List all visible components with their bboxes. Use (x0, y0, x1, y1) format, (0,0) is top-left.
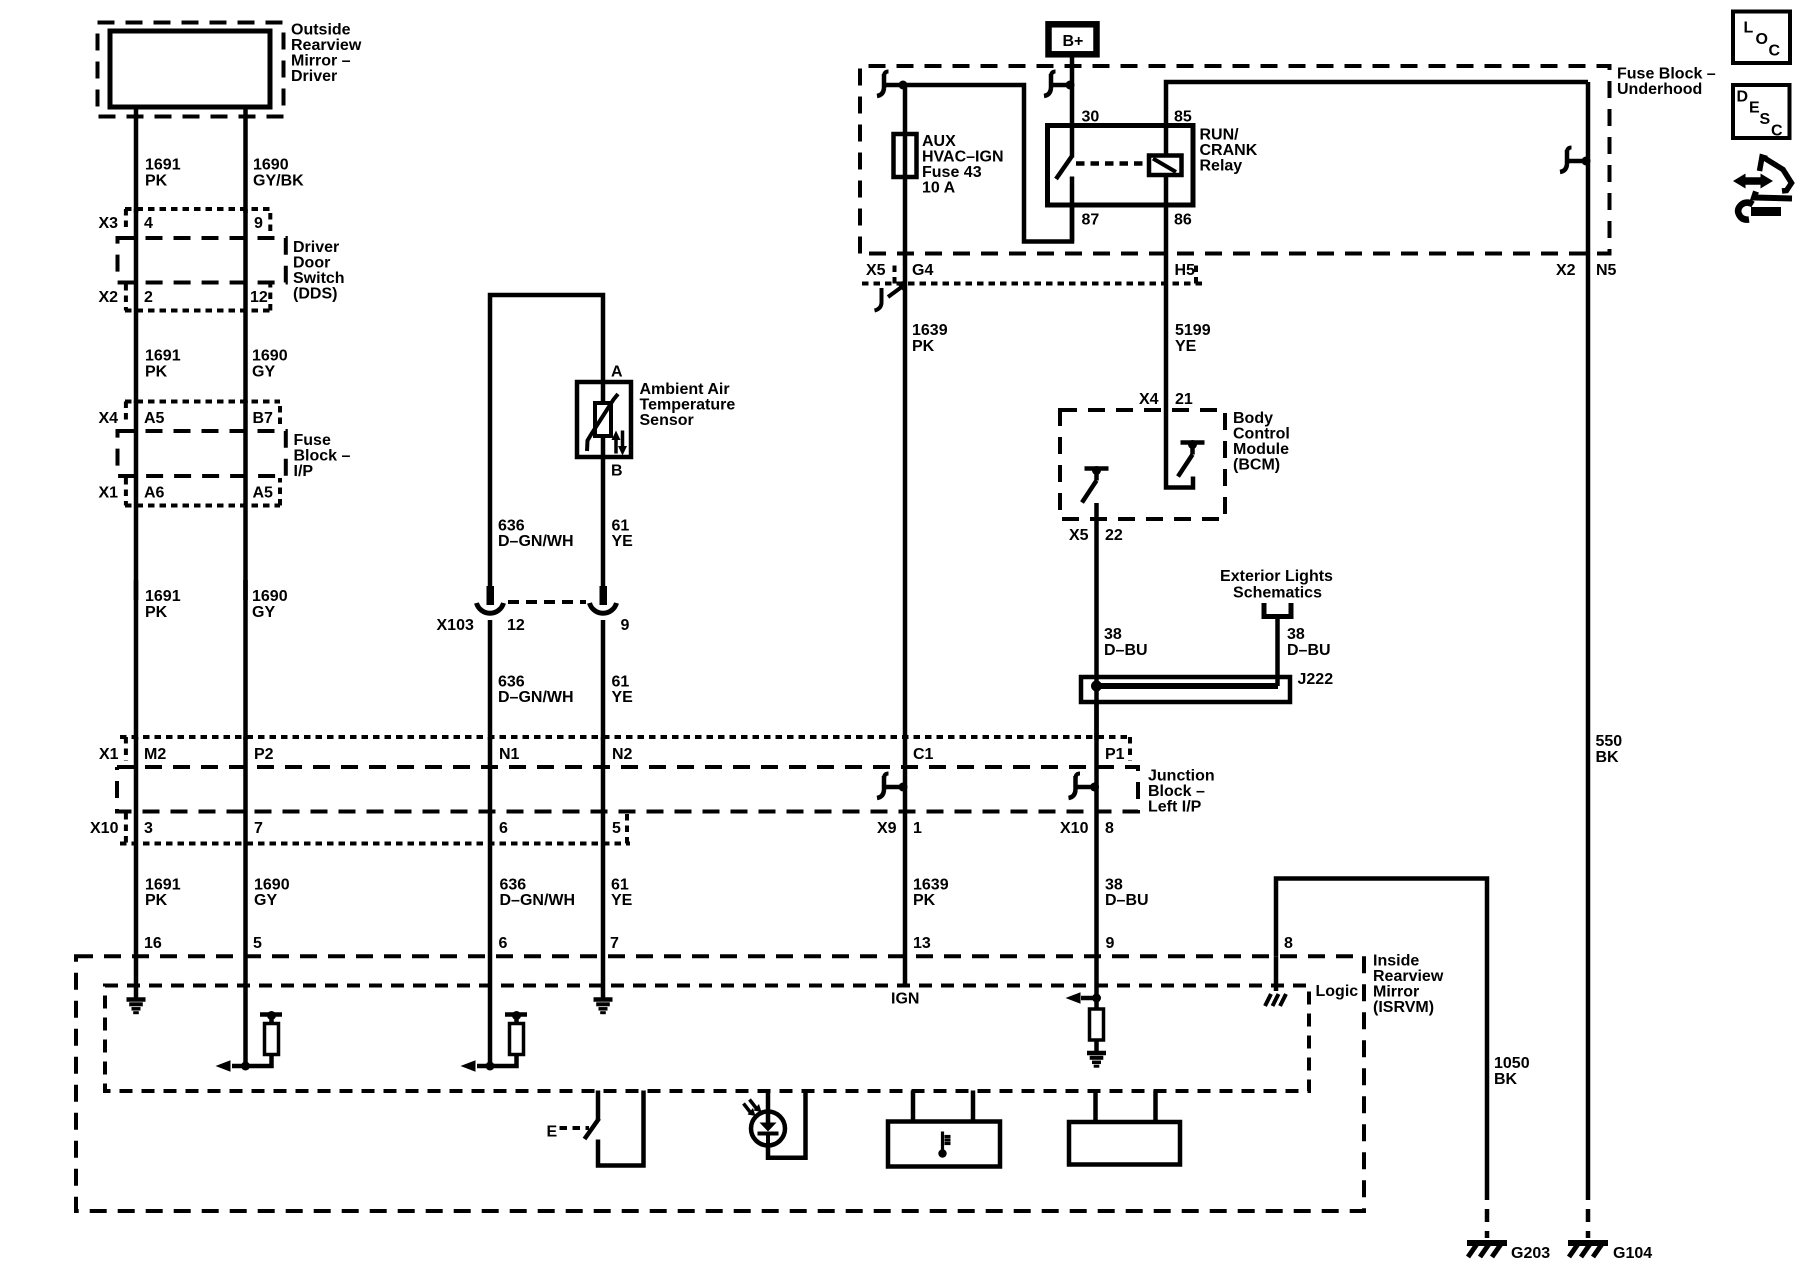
svg-text:A6: A6 (144, 485, 165, 502)
svg-text:X1: X1 (99, 485, 119, 502)
svg-text:1691: 1691 (145, 588, 181, 605)
wire 1690 GY/BK from mirror (243, 107, 248, 213)
outside rearview mirror - driver (dashed enclosure) (98, 23, 284, 117)
svg-text:Left I/P: Left I/P (1148, 799, 1202, 816)
svg-text:Door: Door (293, 255, 330, 272)
svg-text:Exterior Lights: Exterior Lights (1220, 568, 1333, 585)
wire 1691 down to junction block (134, 580, 139, 740)
wire 1690 down to junction block (243, 580, 248, 740)
wire relay 85 to top rail (1166, 82, 1588, 156)
svg-text:PK: PK (145, 892, 168, 909)
svg-text:A: A (611, 364, 623, 381)
fuse block - I/P dashed box (118, 431, 286, 476)
svg-text:PK: PK (912, 338, 935, 355)
driver door switch (DDS) dashed box (118, 238, 286, 283)
compass temperature display module (888, 1122, 1000, 1167)
wire from B+ to relay pin 30 (1070, 54, 1075, 127)
svg-text:636: 636 (500, 877, 527, 894)
hook on right wire (1560, 148, 1591, 173)
svg-text:Outside: Outside (291, 22, 351, 39)
outside rearview mirror body (110, 31, 270, 107)
svg-text:YE: YE (1175, 338, 1197, 355)
svg-text:Fuse Block –: Fuse Block – (1617, 66, 1716, 83)
svg-text:(DDS): (DDS) (293, 286, 337, 303)
svg-text:38: 38 (1105, 877, 1123, 894)
svg-text:4: 4 (144, 215, 153, 232)
svg-text:1690: 1690 (253, 157, 289, 174)
svg-text:1639: 1639 (912, 322, 948, 339)
svg-text:87: 87 (1082, 212, 1100, 229)
svg-text:AUX: AUX (922, 133, 956, 150)
svg-text:Temperature: Temperature (640, 397, 736, 414)
inside rearview mirror (ISRVM) dashed box (76, 956, 1364, 1211)
svg-text:P1: P1 (1105, 746, 1125, 763)
connector row X4 of fuse block I/P (125, 402, 280, 425)
svg-text:H5: H5 (1175, 262, 1196, 279)
fuse block - underhood dashed box (860, 66, 1610, 254)
svg-text:YE: YE (612, 689, 634, 706)
dashed ground lead G203 (1485, 1187, 1490, 1238)
svg-text:13: 13 (913, 935, 931, 952)
inline connector X103 pin 12 (487, 586, 495, 605)
svg-text:X10: X10 (90, 820, 119, 837)
svg-text:PK: PK (145, 604, 168, 621)
inline connector X103 pin 9 (600, 586, 608, 605)
svg-text:1639: 1639 (913, 877, 949, 894)
svg-text:M2: M2 (144, 746, 166, 763)
svg-text:BK: BK (1596, 749, 1620, 766)
wire 636 sensor loop left leg (490, 295, 603, 588)
svg-text:IGN: IGN (891, 991, 919, 1008)
svg-text:(BCM): (BCM) (1233, 457, 1280, 474)
svg-text:A5: A5 (253, 485, 274, 502)
svg-text:GY: GY (254, 892, 277, 909)
svg-text:7: 7 (610, 935, 619, 952)
svg-text:636: 636 (498, 674, 525, 691)
wire fuse feed from relay 87 (905, 85, 1072, 242)
svg-text:HVAC–IGN: HVAC–IGN (922, 149, 1004, 166)
svg-text:Ambient Air: Ambient Air (640, 381, 730, 398)
thermistor symbol (601, 382, 606, 457)
logic dashed box (105, 986, 1309, 1092)
svg-text:C: C (1771, 123, 1783, 140)
fuse 43 symbol (894, 134, 917, 177)
hook at X9 (877, 774, 908, 799)
svg-text:Block –: Block – (1148, 783, 1205, 800)
svg-text:22: 22 (1105, 527, 1123, 544)
svg-text:PK: PK (145, 173, 168, 190)
svg-text:550: 550 (1596, 733, 1623, 750)
svg-text:D–BU: D–BU (1105, 892, 1149, 909)
svg-text:Underhood: Underhood (1617, 81, 1702, 98)
wires through junction block (134, 737, 139, 1000)
thermometer icon (943, 1132, 951, 1153)
wire 636 arrow and resistor (477, 1064, 490, 1069)
svg-text:16: 16 (144, 935, 162, 952)
svg-text:10 A: 10 A (922, 180, 956, 197)
wire from bracket to J222 (1275, 617, 1280, 687)
svg-text:21: 21 (1175, 391, 1193, 408)
svg-text:P2: P2 (254, 746, 274, 763)
svg-text:GY: GY (252, 604, 275, 621)
connector row X1 of fuse block I/P (125, 478, 280, 506)
svg-text:N2: N2 (612, 746, 633, 763)
battery positive terminal B+ (1049, 24, 1097, 54)
svg-text:CRANK: CRANK (1200, 142, 1258, 159)
svg-text:38: 38 (1104, 626, 1122, 643)
svg-text:1050: 1050 (1494, 1055, 1530, 1072)
svg-text:X4: X4 (99, 410, 119, 427)
svg-text:12: 12 (250, 289, 268, 306)
svg-text:BK: BK (1494, 1071, 1518, 1088)
wire 1690 arrow and resistor (232, 1064, 246, 1069)
photocell (766, 1091, 771, 1124)
svg-text:J222: J222 (1298, 671, 1334, 688)
RUN/CRANK relay box (1048, 126, 1194, 206)
svg-text:30: 30 (1082, 109, 1100, 126)
svg-text:X3: X3 (99, 215, 119, 232)
svg-text:1: 1 (913, 820, 922, 837)
svg-text:X2: X2 (1556, 262, 1576, 279)
svg-text:61: 61 (612, 518, 630, 535)
svg-text:61: 61 (611, 877, 629, 894)
hook at B+ wire (1044, 72, 1075, 97)
ground on wire 1691 (127, 1000, 146, 1013)
ground on wire 61 (594, 1000, 613, 1013)
display module (1069, 1122, 1180, 1165)
ambient air temperature sensor box (577, 382, 631, 457)
svg-text:RUN/: RUN/ (1200, 127, 1240, 144)
svg-text:G203: G203 (1511, 1245, 1550, 1262)
svg-text:B7: B7 (253, 410, 274, 427)
svg-text:YE: YE (611, 892, 633, 909)
svg-text:Inside: Inside (1373, 953, 1419, 970)
svg-text:6: 6 (499, 820, 508, 837)
svg-text:X1: X1 (99, 746, 119, 763)
connector row X5 G4 H5 (862, 262, 1203, 284)
svg-text:Rearview: Rearview (291, 37, 362, 54)
splice bus J222 (1081, 677, 1290, 702)
ground G203 (1467, 1243, 1507, 1257)
svg-text:38: 38 (1287, 626, 1305, 643)
dashed ground lead G104 (1586, 1187, 1591, 1238)
svg-text:1690: 1690 (254, 877, 290, 894)
svg-text:X9: X9 (877, 820, 897, 837)
svg-text:N1: N1 (499, 746, 520, 763)
svg-text:9: 9 (254, 215, 263, 232)
wire pin 21 inside BCM (1166, 410, 1193, 488)
wire 1639 PK from G4 to junction block (903, 283, 908, 740)
svg-text:Driver: Driver (293, 239, 339, 256)
svg-text:1691: 1691 (145, 348, 181, 365)
svg-text:E: E (1749, 100, 1760, 117)
svg-text:X5: X5 (866, 262, 886, 279)
svg-text:Fuse 43: Fuse 43 (922, 164, 982, 181)
svg-text:Control: Control (1233, 426, 1290, 443)
svg-text:D–BU: D–BU (1104, 642, 1148, 659)
svg-text:Module: Module (1233, 441, 1289, 458)
wire relay 86 down to H5 (1164, 175, 1169, 283)
svg-text:Mirror –: Mirror – (291, 53, 351, 70)
svg-text:GY: GY (252, 364, 275, 381)
svg-text:7: 7 (254, 820, 263, 837)
svg-text:9: 9 (1106, 935, 1115, 952)
ground G104 (1568, 1243, 1608, 1257)
svg-text:1691: 1691 (145, 157, 181, 174)
connector row X2 of DDS (125, 284, 271, 311)
svg-text:1690: 1690 (252, 348, 288, 365)
svg-text:B+: B+ (1063, 33, 1084, 50)
svg-text:8: 8 (1105, 820, 1114, 837)
svg-text:Driver: Driver (291, 68, 337, 85)
junction block - left I/P dashed box (117, 767, 1138, 812)
wire 1690 through fuse block I/P (243, 401, 248, 601)
svg-text:L: L (1744, 20, 1754, 37)
svg-text:(ISRVM): (ISRVM) (1373, 999, 1434, 1016)
svg-text:D–GN/WH: D–GN/WH (498, 689, 574, 706)
svg-text:3: 3 (144, 820, 153, 837)
svg-text:5: 5 (253, 935, 262, 952)
wire 1691 through DDS (134, 209, 139, 403)
svg-text:Junction: Junction (1148, 768, 1215, 785)
svg-text:Logic: Logic (1316, 983, 1359, 1000)
svg-text:C1: C1 (913, 746, 934, 763)
svg-text:636: 636 (498, 518, 525, 535)
DESC box (1733, 85, 1790, 138)
exterior lights bracket (1262, 603, 1294, 617)
svg-text:Block –: Block – (294, 448, 351, 465)
svg-text:Rearview: Rearview (1373, 968, 1444, 985)
svg-text:O: O (1756, 31, 1768, 48)
wire 38 arrow resistor ground (1081, 996, 1097, 1001)
svg-text:86: 86 (1174, 212, 1192, 229)
wire 636 below X103 (488, 620, 493, 740)
wire through fuse down to G4 (903, 85, 908, 283)
body control module (BCM) dashed box (1060, 410, 1225, 519)
connector row X1 of junction block (120, 737, 1130, 761)
svg-text:X5: X5 (1069, 527, 1089, 544)
svg-text:8: 8 (1284, 935, 1293, 952)
svg-text:PK: PK (145, 364, 168, 381)
svg-text:Sensor: Sensor (640, 412, 694, 429)
svg-text:12: 12 (507, 617, 525, 634)
svg-text:D–GN/WH: D–GN/WH (498, 533, 574, 550)
wire 5199 YE from H5 to BCM (1164, 283, 1169, 410)
svg-text:85: 85 (1174, 109, 1192, 126)
BCM contact for pin 21 (1178, 440, 1205, 477)
relay coil (1149, 156, 1182, 176)
mirror switch with E (596, 1091, 601, 1121)
svg-text:X4: X4 (1139, 391, 1159, 408)
svg-text:61: 61 (612, 674, 630, 691)
hook below G4 (875, 286, 904, 311)
direction arrows icon (1733, 157, 1792, 220)
svg-text:PK: PK (913, 892, 936, 909)
pin 8 chassis ground inside logic (1274, 956, 1279, 991)
LOC box (1733, 12, 1790, 64)
svg-text:G104: G104 (1613, 1245, 1652, 1262)
relay switch blade (1070, 127, 1075, 158)
wire 61 YE from sensor to X103 (601, 457, 606, 588)
svg-text:Mirror: Mirror (1373, 984, 1419, 1001)
svg-text:N5: N5 (1596, 262, 1617, 279)
svg-text:X103: X103 (437, 617, 474, 634)
hook at X10 (1069, 774, 1100, 799)
wire 1691 PK from mirror (134, 107, 139, 213)
wire X5 22 out of BCM (1094, 503, 1099, 740)
svg-text:Body: Body (1233, 410, 1273, 427)
pin 8 wire up and over to G203 (1276, 879, 1487, 1188)
wire 550 BK right side down (1586, 82, 1591, 1187)
svg-text:Fuse: Fuse (294, 432, 331, 449)
svg-text:Schematics: Schematics (1233, 585, 1322, 602)
wire 38 D-BU from J222 to junction block (1094, 702, 1099, 740)
svg-text:G4: G4 (912, 262, 933, 279)
svg-text:X10: X10 (1060, 820, 1089, 837)
BCM contact for pin 22 (1082, 466, 1109, 503)
svg-text:I/P: I/P (294, 463, 314, 480)
svg-text:B: B (611, 463, 623, 480)
svg-text:GY/BK: GY/BK (253, 173, 304, 190)
svg-text:5: 5 (612, 820, 621, 837)
svg-text:Switch: Switch (293, 270, 345, 287)
svg-text:A5: A5 (144, 410, 165, 427)
svg-text:D–BU: D–BU (1287, 642, 1331, 659)
relay actuating dashed link (1076, 161, 1148, 166)
svg-text:2: 2 (144, 289, 153, 306)
svg-text:6: 6 (499, 935, 508, 952)
X103 dashed link (508, 600, 586, 604)
svg-text:1691: 1691 (145, 877, 181, 894)
svg-text:5199: 5199 (1175, 322, 1211, 339)
svg-text:S: S (1760, 111, 1771, 128)
svg-text:D: D (1737, 89, 1749, 106)
svg-text:Relay: Relay (1200, 158, 1243, 175)
connector row X10 of junction block (120, 813, 630, 844)
svg-text:C: C (1769, 43, 1781, 60)
connector row X3 of DDS (125, 209, 271, 231)
svg-text:E: E (547, 1124, 558, 1141)
wire 1690 through DDS (243, 209, 248, 403)
svg-text:9: 9 (621, 617, 630, 634)
svg-text:1690: 1690 (252, 588, 288, 605)
wire 1691 through fuse block I/P (134, 401, 139, 601)
svg-text:X2: X2 (99, 289, 119, 306)
node hook at fuse feed (877, 72, 908, 97)
svg-text:YE: YE (612, 533, 634, 550)
wire 61 below X103 (601, 620, 606, 740)
svg-text:D–GN/WH: D–GN/WH (500, 892, 576, 909)
